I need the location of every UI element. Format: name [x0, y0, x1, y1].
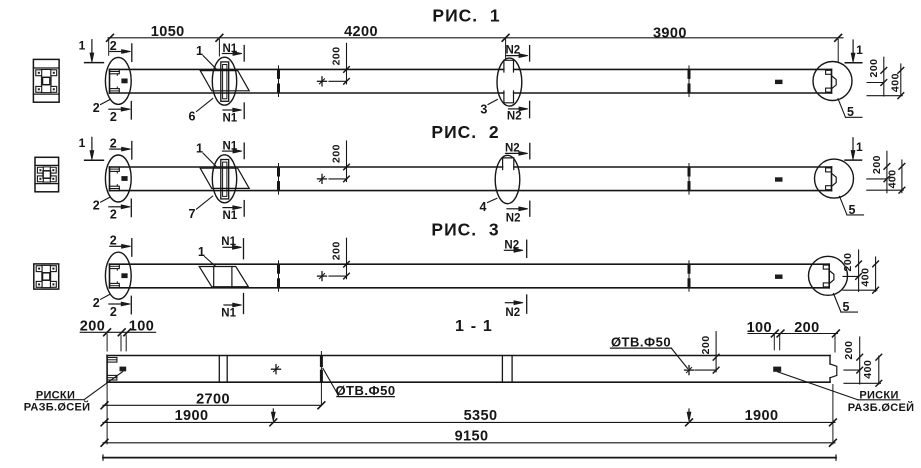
svg-text:1: 1 [198, 245, 205, 259]
section mark N2 bottom fig 3 [505, 302, 516, 304]
dimension line 1900 5350 1900 [103, 421, 835, 423]
svg-text:200: 200 [794, 320, 819, 336]
label OTV F50 right [672, 348, 688, 368]
svg-text:200: 200 [868, 58, 880, 77]
svg-text:200: 200 [331, 144, 343, 163]
svg-text:РАЗБ.ØСЕЙ: РАЗБ.ØСЕЙ [848, 401, 915, 414]
axis mark (riska) in left oval fig 2 [121, 176, 127, 181]
extension line bottom right [832, 385, 834, 445]
axis mark (riska) on beam fig 3 [775, 275, 783, 279]
svg-text:1050: 1050 [151, 24, 185, 40]
top dimension line fig 1 [108, 37, 843, 39]
section 1-1 beam outline [107, 355, 830, 357]
right end circle detail 5 fig 2 [815, 159, 854, 198]
svg-text:РИС. 3: РИС. 3 [431, 219, 499, 239]
level mark 1 right fig 2 [852, 138, 854, 153]
left end oval detail fig 3 [105, 252, 131, 299]
dimension 200 right fig 1 [883, 57, 885, 96]
level mark 1 right fig 1 [852, 40, 854, 55]
dimension 200 right section [859, 337, 861, 384]
svg-text:6: 6 [189, 110, 196, 124]
svg-text:9150: 9150 [455, 428, 489, 444]
joint mark at 278 fig 1 [278, 66, 280, 97]
dimension 400 right fig 2 [901, 160, 903, 193]
section mark 2 bottom fig 1 [109, 108, 123, 110]
svg-text:1: 1 [79, 39, 86, 53]
dimension 400 right section [878, 356, 880, 384]
dimension 400 right fig 1 [900, 64, 902, 96]
hole axis line at 321 section [320, 352, 322, 406]
svg-text:100: 100 [129, 319, 154, 335]
svg-text:2: 2 [110, 234, 117, 248]
right end circle detail 5 fig 3 [809, 256, 848, 295]
svg-text:РИСКИ: РИСКИ [859, 389, 898, 401]
bottom frame line [103, 457, 836, 459]
section mark 2 bottom fig 2 [109, 206, 123, 208]
leader label 5 fig 1 [838, 99, 846, 118]
section mark N2 bottom fig 2 [507, 208, 521, 210]
svg-text:400: 400 [886, 169, 898, 188]
svg-text:4: 4 [480, 200, 487, 214]
dimension 200 right fig 3 [858, 250, 860, 291]
svg-text:ØТВ.Ф50: ØТВ.Ф50 [611, 334, 671, 349]
svg-text:N2: N2 [505, 142, 520, 154]
embedded plate N1 oval fig 2 [212, 155, 236, 203]
embedded item N2 oval fig 1 [497, 58, 522, 106]
beam outline fig 2 [110, 166, 832, 168]
leader riski razb osey left [36, 372, 123, 400]
svg-text:2: 2 [110, 305, 117, 319]
svg-text:200: 200 [842, 252, 854, 271]
hole centre cross left section [272, 368, 281, 370]
svg-text:2: 2 [110, 39, 117, 53]
svg-text:РИС. 2: РИС. 2 [431, 122, 499, 142]
svg-text:200: 200 [871, 155, 883, 174]
svg-text:1: 1 [79, 136, 86, 150]
svg-text:3900: 3900 [653, 26, 687, 42]
dimension 200 right fig 2 [886, 151, 888, 192]
svg-text:3: 3 [480, 103, 487, 117]
section mark N1 bottom fig 2 [223, 207, 235, 209]
svg-text:2: 2 [93, 296, 100, 310]
hole centre cross right section [685, 369, 694, 371]
label OTV F50 left [323, 368, 339, 395]
svg-text:2700: 2700 [196, 391, 230, 407]
svg-text:РИСКИ: РИСКИ [36, 389, 75, 401]
svg-text:200: 200 [331, 241, 343, 260]
dimension line 2700 [103, 404, 321, 406]
svg-text:РАЗБ.ØСЕЙ: РАЗБ.ØСЕЙ [24, 400, 91, 413]
svg-text:200: 200 [700, 335, 712, 354]
joint mark at 278 fig 3 [278, 261, 280, 292]
axis mark (riska) in left oval fig 3 [121, 273, 127, 278]
svg-text:1: 1 [196, 44, 203, 58]
svg-text:N2: N2 [507, 111, 522, 123]
axis mark (riska) in left oval fig 1 [121, 79, 127, 84]
hole centre cross fig 2 [318, 178, 327, 180]
joint mark at 689 fig 1 [688, 66, 690, 97]
svg-text:400: 400 [889, 73, 901, 92]
hatch parallelogram fig 3 [199, 267, 248, 287]
leader label 5 fig 2 [840, 196, 848, 215]
dimension 200 fig 2 [346, 141, 348, 182]
joint mark at 689 fig 3 [688, 261, 690, 292]
leader label 5 fig 3 [834, 294, 842, 313]
left end channels section 1-1 [107, 358, 117, 363]
svg-text:2: 2 [93, 199, 100, 213]
axis mark riska left section [120, 367, 127, 372]
svg-text:7: 7 [189, 207, 196, 221]
left cross-section symbol row 2 [35, 157, 59, 192]
embedded plate N1 oval fig 1 [212, 57, 236, 105]
axis mark riska right section [773, 367, 781, 372]
svg-text:5: 5 [847, 105, 854, 119]
hatch parallelogram fig 1 [200, 71, 249, 91]
hole centre cross fig 1 [318, 80, 327, 82]
left end oval detail fig 1 [105, 57, 131, 104]
svg-text:2: 2 [110, 110, 117, 124]
left end oval detail fig 2 [105, 155, 131, 202]
extension lines bottom left [106, 384, 108, 445]
svg-text:5350: 5350 [464, 408, 498, 424]
svg-text:ØТВ.Ф50: ØТВ.Ф50 [335, 383, 395, 398]
axis mark (riska) on beam fig 1 [775, 80, 783, 84]
svg-text:N2: N2 [506, 45, 521, 57]
top right dimensions 100 200 section [748, 333, 838, 335]
top left dimensions 200 100 section [80, 331, 155, 333]
svg-text:1900: 1900 [175, 408, 209, 424]
svg-text:1900: 1900 [745, 408, 779, 424]
svg-text:N2: N2 [505, 307, 520, 319]
joint mark at 689 fig 2 [688, 164, 690, 195]
svg-text:200: 200 [843, 341, 855, 360]
svg-text:2: 2 [93, 101, 100, 115]
dimension 400 right fig 3 [875, 257, 877, 291]
svg-text:200: 200 [331, 46, 343, 65]
svg-text:1: 1 [856, 140, 863, 154]
right end circle detail 5 fig 1 [813, 62, 852, 101]
axis mark (riska) on beam fig 2 [775, 177, 783, 181]
svg-text:1: 1 [196, 142, 203, 156]
svg-text:200: 200 [80, 319, 105, 335]
beam outline fig 1 [110, 68, 832, 70]
svg-text:N1: N1 [223, 113, 238, 125]
dimension 200 hole right section [715, 332, 717, 372]
svg-text:100: 100 [747, 320, 772, 336]
svg-text:5: 5 [843, 300, 850, 314]
section mark N1 bottom fig 1 [223, 109, 235, 111]
hole centre cross fig 3 [318, 275, 327, 277]
joint lines at 505 section [501, 356, 503, 383]
dimension 200 fig 1 [346, 43, 348, 84]
svg-text:N1: N1 [221, 308, 236, 320]
hatch parallelogram fig 2 [200, 168, 249, 188]
svg-text:1 - 1: 1 - 1 [455, 318, 493, 335]
right end with tenon [829, 356, 831, 365]
svg-text:N2: N2 [506, 213, 521, 225]
joint mark at 278 fig 2 [278, 164, 280, 195]
svg-text:2: 2 [110, 137, 117, 151]
section mark 2 bottom fig 3 [109, 303, 123, 305]
dimension line 9150 [103, 442, 835, 444]
section mark N1 bottom fig 3 [224, 304, 235, 306]
svg-text:2: 2 [110, 208, 117, 222]
joint lines at 220 section [218, 356, 220, 383]
section mark N2 bottom fig 1 [509, 108, 522, 110]
svg-text:400: 400 [860, 268, 872, 287]
dimension 200 fig 3 [346, 238, 348, 279]
svg-text:1: 1 [856, 43, 863, 57]
svg-text:N1: N1 [223, 210, 238, 222]
extension lines top dimension [108, 40, 110, 56]
left cross-section symbol row 1 [33, 59, 59, 102]
svg-text:4200: 4200 [344, 24, 378, 40]
svg-text:РИС. 1: РИС. 1 [432, 6, 500, 26]
beam outline fig 3 [110, 263, 830, 265]
embedded item N2 oval fig 2 [495, 155, 520, 203]
leader riski razb osey right [778, 372, 859, 400]
left cross-section symbol row 3 [34, 264, 59, 289]
svg-text:5: 5 [849, 203, 856, 217]
svg-text:400: 400 [862, 360, 874, 379]
